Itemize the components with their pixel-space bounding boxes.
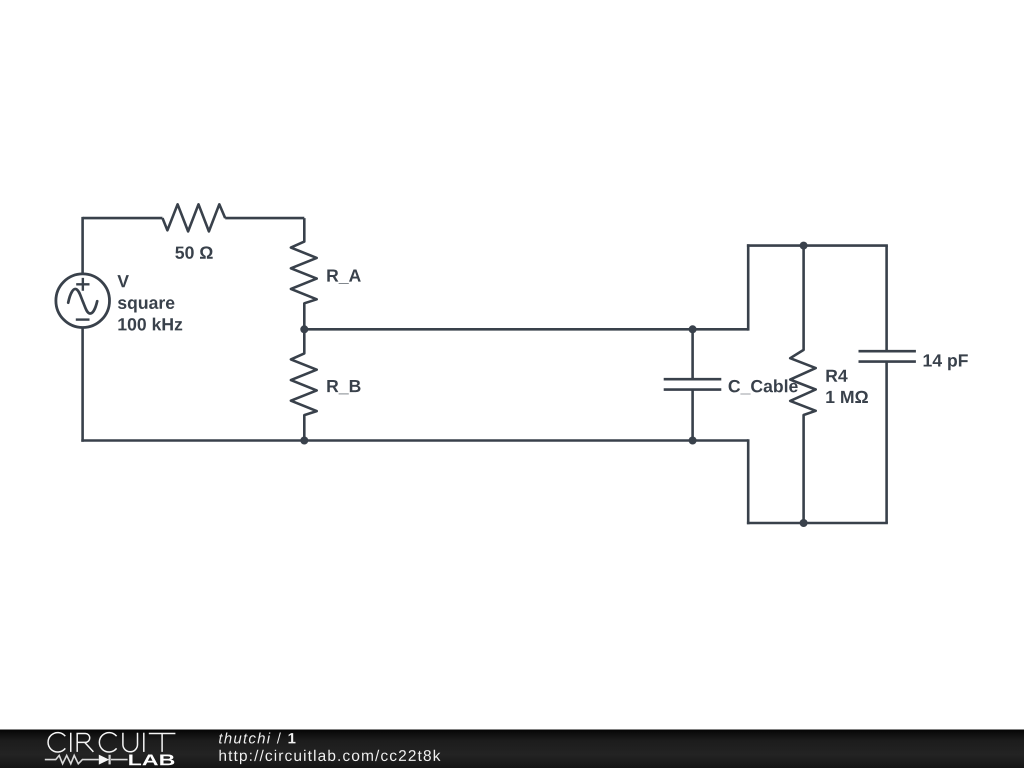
- wire left rail upper: [81, 217, 84, 274]
- wire middle rail: [304, 328, 748, 331]
- label R_A: [327, 270, 361, 284]
- capacitor 14pF: [885, 246, 888, 352]
- resistor R4: [790, 246, 816, 523]
- wire top rail left: [83, 217, 163, 220]
- logo diode triangle: [99, 755, 109, 765]
- resistor R_A: [291, 218, 317, 329]
- node dot bottom-left: [300, 437, 308, 445]
- logo resistor-diode: [45, 755, 128, 765]
- label C_Cable: [729, 379, 798, 394]
- logo LAB: [129, 755, 174, 766]
- label square: [118, 299, 174, 312]
- node dot C_Cable top: [689, 325, 697, 333]
- wire drop bottom-to-bottom-right: [747, 439, 750, 524]
- label 14 pF: [924, 354, 968, 370]
- label R_B: [327, 380, 360, 394]
- wire bottom rail: [81, 439, 748, 442]
- voltage source sine: [68, 289, 97, 313]
- footer author line: [219, 733, 295, 744]
- wire bottom-right rail: [747, 522, 888, 525]
- label 1 Mohm: [826, 391, 868, 403]
- footer url line: [220, 750, 441, 764]
- wire riser middle-to-top-right: [747, 244, 750, 330]
- label R4: [826, 370, 847, 382]
- label 100 kHz: [118, 318, 182, 331]
- wire top-right rail: [747, 244, 888, 247]
- node dot mid-left: [300, 325, 308, 333]
- resistor 50ohm: [163, 204, 226, 231]
- minus sign: [76, 318, 90, 320]
- node dot R4 top: [800, 242, 808, 250]
- node dot C_Cable bottom: [689, 437, 697, 445]
- resistor R_B: [291, 329, 317, 440]
- wire top rail right: [225, 217, 304, 220]
- node dot R4 bottom: [800, 519, 808, 527]
- logo CIRCUIT text: [48, 733, 175, 752]
- footer bar: [0, 730, 1024, 768]
- wire left rail lower: [81, 327, 84, 441]
- label V source: [117, 275, 128, 287]
- plus sign: [76, 278, 89, 291]
- voltage source V circle: [56, 274, 110, 328]
- capacitor C_Cable: [691, 329, 694, 379]
- label 50 ohm: [175, 246, 212, 259]
